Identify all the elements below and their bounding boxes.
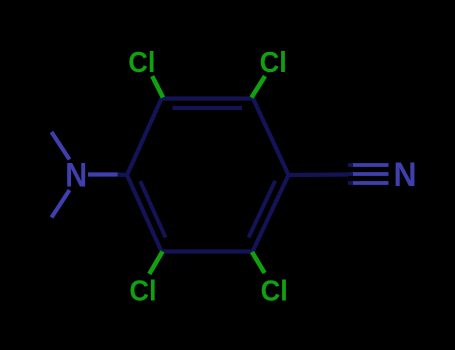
svg-text:Cl: Cl bbox=[129, 275, 156, 307]
atom Cl top-left bbox=[128, 46, 155, 78]
bond N to methyl lower bbox=[52, 190, 70, 218]
atom N nitrile bbox=[393, 155, 416, 193]
benzene ring outer hexagon bbox=[127, 99, 289, 252]
ring double bond inner line lower-right bbox=[249, 181, 276, 238]
bond Cl bottom-right bbox=[252, 252, 265, 273]
svg-text:Cl: Cl bbox=[260, 46, 287, 78]
bond ring to nitrile carbon bbox=[289, 172, 349, 177]
svg-text:Cl: Cl bbox=[128, 46, 155, 78]
svg-text:Cl: Cl bbox=[261, 275, 288, 307]
svg-text:N: N bbox=[65, 156, 87, 194]
bond N to ring carbon (blue half) bbox=[88, 172, 118, 176]
atom Cl bottom-left bbox=[129, 275, 156, 307]
bond N to ring carbon (navy half) bbox=[118, 172, 128, 177]
nitrile triple bond navy part bbox=[348, 165, 356, 183]
svg-text:N: N bbox=[393, 155, 416, 193]
bond N to methyl upper bbox=[52, 132, 70, 160]
ring double bond inner line top bbox=[173, 106, 243, 110]
ring double bond inner line lower-left bbox=[140, 181, 165, 238]
atom Cl bottom-right bbox=[261, 275, 288, 307]
atom Cl top-right bbox=[260, 46, 287, 78]
bond Cl bottom-left bbox=[149, 252, 162, 275]
nitrile triple bond blue part bbox=[353, 165, 389, 183]
atom N amine bbox=[65, 156, 87, 194]
bond Cl top-left bbox=[152, 76, 163, 97]
bond Cl top-right bbox=[252, 76, 266, 97]
